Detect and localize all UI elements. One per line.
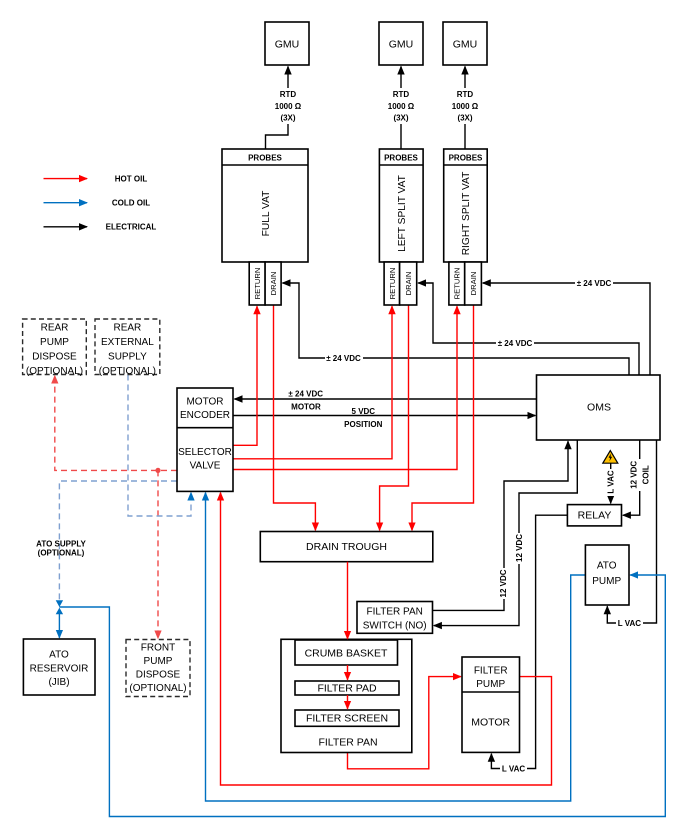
svg-text:± 24 VDC: ± 24 VDC <box>498 339 533 348</box>
svg-text:SELECTOR: SELECTOR <box>178 447 232 458</box>
svg-text:FULL VAT: FULL VAT <box>261 191 272 237</box>
junction dot hot oil dashed <box>155 468 160 473</box>
FILTER PUMP / MOTOR box <box>462 657 520 752</box>
label L VAC vertical <box>605 469 617 496</box>
wire GMU1 RTD arrow <box>287 67 289 89</box>
svg-text:MOTOR: MOTOR <box>471 717 510 729</box>
svg-text:(JIB): (JIB) <box>48 677 69 688</box>
label 12 VDC left <box>498 568 510 599</box>
svg-text:FILTER PAD: FILTER PAD <box>317 683 377 695</box>
svg-text:GMU: GMU <box>389 39 414 51</box>
FILTER PAD box <box>295 681 399 695</box>
GMU box 2 <box>379 22 423 65</box>
svg-text:± 24 VDC: ± 24 VDC <box>326 354 361 363</box>
ATO RESERVOIR box <box>23 639 95 695</box>
RIGHT SPLIT VAT box <box>444 149 488 262</box>
DRAIN TROUGH box <box>260 532 433 562</box>
wire ±24VDC OMS to LEFT SPLIT VAT drain <box>418 283 639 375</box>
svg-text:ATO SUPPLY: ATO SUPPLY <box>36 540 86 549</box>
overlay wires above boxes <box>347 562 349 709</box>
wire GMU2 RTD arrow <box>400 67 402 89</box>
wire cold oil junction to ATO pump <box>59 575 665 817</box>
OMS box <box>537 375 661 440</box>
junction bowtie arrows <box>56 600 63 614</box>
RETURN box left split <box>384 262 400 305</box>
svg-text:± 24 VDC: ± 24 VDC <box>288 390 323 399</box>
svg-text:1000 Ω: 1000 Ω <box>388 102 415 111</box>
svg-text:12 VDC: 12 VDC <box>515 534 524 562</box>
wire L VAC relay to filter motor <box>491 515 567 768</box>
svg-text:PROBES: PROBES <box>248 154 282 163</box>
svg-text:(3X): (3X) <box>457 114 472 123</box>
svg-text:SWITCH (NO): SWITCH (NO) <box>363 621 427 632</box>
wire GMU3 RTD arrow <box>464 67 466 89</box>
svg-text:PROBES: PROBES <box>384 154 418 163</box>
svg-text:COIL: COIL <box>641 465 650 484</box>
svg-text:LEFT SPLIT VAT: LEFT SPLIT VAT <box>397 175 408 252</box>
svg-text:1000 Ω: 1000 Ω <box>452 102 479 111</box>
svg-text:MOTOR: MOTOR <box>186 397 223 408</box>
wire RTD to RIGHT SPLIT VAT probes <box>464 124 466 149</box>
wire hot oil valve to FULL VAT return <box>233 306 257 445</box>
label ±24VDC low <box>325 353 363 363</box>
DRAIN box right split <box>465 262 482 305</box>
label 12 VDC right <box>513 533 525 564</box>
RELAY box <box>567 505 621 526</box>
svg-text:(3X): (3X) <box>280 114 295 123</box>
wire 12VDC filter pan switch to OMS <box>433 441 569 610</box>
wire 12VDC COIL OMS to relay <box>623 440 640 515</box>
RETURN box full vat <box>249 262 265 305</box>
warning triangle <box>603 451 618 464</box>
FILTER PAN box <box>281 639 412 752</box>
wire 12VDC OMS to filter pan switch <box>434 440 577 626</box>
wire hot oil dashed to front pump dispose <box>157 470 159 638</box>
wire ±24VDC MOTOR OMS to motor encoder <box>235 398 537 400</box>
svg-text:DRAIN: DRAIN <box>269 272 278 296</box>
svg-text:EXTERNAL: EXTERNAL <box>101 337 154 348</box>
svg-text:1000 Ω: 1000 Ω <box>275 102 302 111</box>
DRAIN box left split <box>400 262 417 305</box>
svg-text:12 VDC: 12 VDC <box>629 461 638 489</box>
svg-text:RTD: RTD <box>280 90 297 99</box>
wire hot oil valve to LEFT SPLIT VAT return <box>233 306 392 459</box>
labels layer <box>26 39 651 774</box>
svg-text:FILTER PAN: FILTER PAN <box>318 737 377 749</box>
wire cold oil ato pump to selector valve <box>206 493 586 801</box>
svg-text:(OPTIONAL): (OPTIONAL) <box>38 549 85 558</box>
wire hot oil trough to crumb basket <box>347 562 349 639</box>
label L VAC ato pump <box>616 618 643 628</box>
svg-text:FILTER PAN: FILTER PAN <box>367 607 423 618</box>
FILTER SCREEN box <box>295 710 399 726</box>
wire hot oil filter pad to filter screen <box>347 695 349 709</box>
svg-text:DRAIN: DRAIN <box>404 272 413 296</box>
svg-text:VALVE: VALVE <box>190 461 221 472</box>
wire 5VDC POSITION encoder to OMS <box>233 415 535 417</box>
wire ±24VDC OMS to FULL VAT drain <box>283 283 630 375</box>
svg-text:± 24 VDC: ± 24 VDC <box>577 279 612 288</box>
legend arrow electrical <box>44 226 88 228</box>
svg-text:POSITION: POSITION <box>344 420 382 429</box>
wire hot oil valve to RIGHT SPLIT VAT return <box>233 306 457 469</box>
svg-text:PUMP: PUMP <box>144 656 173 667</box>
RETURN box right split <box>449 262 465 305</box>
wire L VAC to relay <box>610 463 612 503</box>
svg-text:RIGHT SPLIT VAT: RIGHT SPLIT VAT <box>461 172 472 256</box>
svg-text:12 VDC: 12 VDC <box>499 569 508 597</box>
svg-text:HOT OIL: HOT OIL <box>115 175 148 184</box>
svg-text:MOTOR: MOTOR <box>291 403 321 412</box>
wire hot oil crumb basket to filter pad <box>347 665 349 680</box>
svg-text:FRONT: FRONT <box>141 643 175 654</box>
FULL VAT box <box>222 149 308 262</box>
svg-text:RETURN: RETURN <box>388 268 397 300</box>
svg-text:REAR: REAR <box>41 323 69 334</box>
svg-text:5 VDC: 5 VDC <box>352 407 376 416</box>
label ±24VDC top <box>575 278 613 288</box>
MOTOR ENCODER / SELECTOR VALVE box <box>177 388 233 491</box>
svg-text:FILTER: FILTER <box>474 666 508 677</box>
DRAIN box full vat <box>265 262 281 305</box>
wire hot oil FULL VAT drain to trough <box>274 305 316 530</box>
svg-text:PUMP: PUMP <box>40 337 69 348</box>
svg-text:PUMP: PUMP <box>592 576 621 587</box>
svg-text:(OPTIONAL): (OPTIONAL) <box>99 366 156 377</box>
svg-text:L VAC: L VAC <box>607 470 616 493</box>
svg-text:OMS: OMS <box>587 402 611 414</box>
svg-text:ATO: ATO <box>597 561 617 572</box>
wire cold oil junction to ATO reservoir <box>58 612 60 638</box>
label L VAC motor <box>500 764 527 774</box>
svg-text:(OPTIONAL): (OPTIONAL) <box>26 366 83 377</box>
svg-text:RESERVOIR: RESERVOIR <box>30 663 89 674</box>
svg-text:REAR: REAR <box>114 323 142 334</box>
svg-text:GMU: GMU <box>275 39 300 51</box>
FRONT PUMP DISPOSE dashed box <box>126 640 190 697</box>
svg-text:(3X): (3X) <box>393 114 408 123</box>
legend arrow cold oil <box>44 202 88 204</box>
svg-text:PUMP: PUMP <box>476 679 505 690</box>
svg-text:FILTER SCREEN: FILTER SCREEN <box>306 713 388 725</box>
svg-text:GMU: GMU <box>453 39 478 51</box>
svg-text:DISPOSE: DISPOSE <box>32 352 77 363</box>
svg-text:SUPPLY: SUPPLY <box>108 352 147 363</box>
svg-text:RTD: RTD <box>457 90 474 99</box>
wire hot oil RIGHT SPLIT VAT drain to trough <box>412 305 474 530</box>
label 12 VDC COIL <box>629 459 651 491</box>
svg-text:RTD: RTD <box>393 90 410 99</box>
wire hot oil filter pan to filter pump <box>348 677 461 769</box>
wire RTD to LEFT SPLIT VAT probes <box>400 124 402 149</box>
svg-text:CRUMB BASKET: CRUMB BASKET <box>305 648 388 660</box>
wire cold oil dashed ato supply <box>59 481 177 600</box>
wire ±24VDC OMS to RIGHT SPLIT VAT drain <box>483 283 650 375</box>
REAR EXTERNAL SUPPLY dashed box <box>95 319 160 375</box>
wire hot oil filter pump to selector valve <box>221 493 552 785</box>
FILTER PAN SWITCH box <box>357 602 433 634</box>
legend arrow hot oil <box>44 178 88 180</box>
GMU box 3 <box>443 22 487 65</box>
wire RTD to FULL VAT probes <box>266 124 289 149</box>
svg-text:RELAY: RELAY <box>578 510 612 522</box>
svg-text:RETURN: RETURN <box>253 268 262 300</box>
CRUMB BASKET box <box>295 640 398 665</box>
svg-text:ELECTRICAL: ELECTRICAL <box>106 223 157 232</box>
wire L VAC OMS to ATO pump <box>607 440 656 623</box>
svg-text:L VAC: L VAC <box>618 619 641 628</box>
ATO PUMP box <box>585 545 629 605</box>
GMU box 1 <box>265 22 309 65</box>
svg-text:DRAIN TROUGH: DRAIN TROUGH <box>306 541 387 553</box>
svg-text:(OPTIONAL): (OPTIONAL) <box>129 683 186 694</box>
svg-text:ENCODER: ENCODER <box>180 410 230 421</box>
svg-text:DISPOSE: DISPOSE <box>136 670 181 681</box>
wire hot oil LEFT SPLIT VAT drain to trough <box>380 305 409 530</box>
label ±24VDC mid <box>496 338 534 348</box>
wire cold oil dashed rear external supply to valve <box>128 375 191 517</box>
svg-text:ATO: ATO <box>49 650 69 661</box>
svg-text:L VAC: L VAC <box>502 765 525 774</box>
REAR PUMP DISPOSE dashed box <box>23 319 87 375</box>
svg-text:RETURN: RETURN <box>453 268 462 300</box>
svg-text:PROBES: PROBES <box>449 154 483 163</box>
LEFT SPLIT VAT box <box>379 149 423 262</box>
svg-text:COLD OIL: COLD OIL <box>112 199 150 208</box>
svg-text:DRAIN: DRAIN <box>469 272 478 296</box>
wire hot oil dashed to rear pump dispose <box>55 376 177 471</box>
